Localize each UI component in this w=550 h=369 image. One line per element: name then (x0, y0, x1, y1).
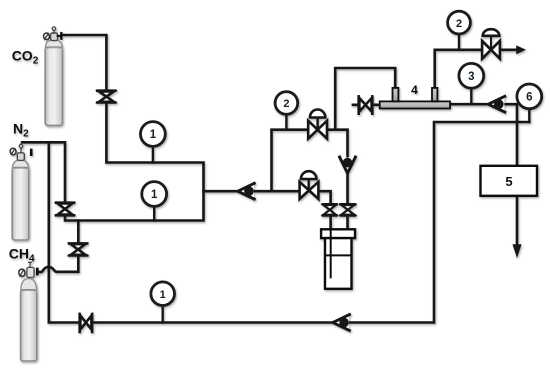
reactor 4 body bar (380, 88, 450, 109)
pipe: manifold outlet to bubbler branch (204, 191, 331, 229)
pressure gauge 1 (manifold bottom) (142, 182, 167, 207)
valve (CO2 line, vertical) (97, 91, 115, 103)
svg-text:3: 3 (468, 71, 474, 83)
valve pair (bubbler outlet, vertical) (341, 204, 355, 215)
pipe: reactor port 2 feed and vent line (435, 50, 518, 90)
arrow (vent outlet) (517, 46, 525, 54)
pipe: CH4 line with crossover hump, up through valve to manifold (38, 221, 78, 273)
gas cylinder CO2 (43, 27, 63, 125)
check valve (bubbler outlet, downward) (340, 157, 356, 173)
pipe: N2 bypass down, bottom line, riser, gauge-6 line (49, 122, 530, 323)
pipe: tee up to control-valve line A and down to bubbler outlet (272, 130, 348, 230)
pipe: reactor outlet to box 5 (450, 104, 517, 166)
pipe: line A up to reactor port 1 (335, 68, 395, 130)
svg-text:4: 4 (411, 83, 418, 97)
vessel liquid level line (325, 254, 352, 256)
pipe: box 5 outlet down (516, 196, 519, 246)
vessel dip tube (330, 229, 332, 277)
stem gauge 1b (153, 206, 155, 221)
stem gauge 6 (528, 109, 530, 123)
svg-text:1: 1 (150, 129, 157, 141)
valve (N2 line, vertical) (56, 203, 74, 216)
svg-text:5: 5 (505, 174, 512, 189)
check valve (manifold outlet) (238, 183, 255, 199)
stem gauge 1c (161, 305, 163, 323)
stem gauge 3 (470, 88, 472, 105)
pressure gauge 2 (line A) (275, 92, 298, 115)
control valve (line A) with dome actuator (308, 110, 327, 139)
pipe: CO2 header, manifold loop, N2 header (22, 35, 203, 221)
arrow (box 5 outlet) (513, 245, 521, 257)
svg-text:1: 1 (151, 189, 158, 201)
svg-text:CO2: CO2 (12, 47, 39, 66)
pipe: reactor inlet stub (353, 104, 380, 107)
svg-text:1: 1 (160, 289, 166, 301)
pressure gauge 2 (vent line) (448, 11, 471, 34)
valve (CH4 line, vertical) (69, 243, 87, 255)
svg-text:CH4: CH4 (9, 245, 35, 264)
vessel (bubbler) body (325, 238, 352, 289)
pressure gauge 1 (bottom bypass) (151, 282, 175, 306)
svg-text:N2: N2 (13, 121, 29, 140)
pressure gauge 1 (manifold top) (141, 122, 166, 147)
pressure gauge 6 (return line) (517, 84, 542, 109)
valve pair (bubbler inlet, vertical) (323, 204, 337, 215)
gas cylinder CH4 (18, 262, 39, 361)
valve (bottom bypass line, horizontal) (80, 314, 92, 332)
stem gauge 2b (458, 34, 460, 50)
pressure gauge 3 (reactor outlet) (459, 63, 484, 88)
stem gauge 2a (285, 114, 287, 130)
svg-text:6: 6 (526, 92, 532, 104)
valve (reactor inlet, horizontal) (359, 96, 373, 113)
gas cylinder N2 (9, 143, 32, 240)
svg-text:2: 2 (283, 98, 289, 110)
svg-text:2: 2 (456, 18, 462, 30)
control valve (line B) with dome actuator (300, 171, 319, 199)
control valve (vent line, top right) with dome actuator (482, 29, 500, 58)
check valve (bottom bypass line) (333, 315, 350, 331)
stem gauge 1a (152, 146, 154, 163)
vessel (bubbler) cap (321, 229, 355, 238)
box 5 (trap) (481, 166, 538, 196)
check valve (reactor outlet) (488, 96, 505, 112)
